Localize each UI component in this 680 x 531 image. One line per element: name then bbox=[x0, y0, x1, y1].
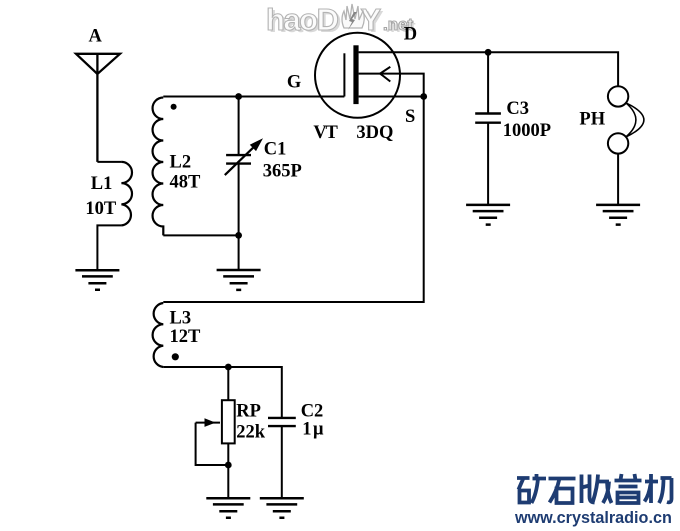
logo char kuang bbox=[517, 474, 546, 503]
svg-text:365P: 365P bbox=[263, 161, 302, 181]
svg-text:PH: PH bbox=[579, 110, 605, 130]
svg-text:48T: 48T bbox=[170, 173, 202, 193]
potentiometer RP wiper bbox=[196, 422, 220, 424]
svg-text:10T: 10T bbox=[85, 199, 117, 219]
wire G net: L2 top to gate bbox=[163, 96, 344, 98]
svg-text:www.crystalradio.cn: www.crystalradio.cn bbox=[514, 509, 672, 527]
junction dot wiper bottom bbox=[225, 462, 232, 469]
svg-text:haoD: haoD bbox=[266, 2, 339, 37]
svg-text:1μ: 1μ bbox=[302, 420, 325, 440]
junction dot S node bbox=[420, 93, 427, 100]
svg-text:1000P: 1000P bbox=[503, 121, 551, 141]
svg-text:D: D bbox=[404, 25, 417, 45]
capacitor C1 arrow bbox=[225, 148, 253, 175]
phones PH top earpiece bbox=[608, 86, 628, 106]
capacitor C1 leads bbox=[238, 97, 240, 270]
phones PH band bbox=[626, 103, 644, 137]
capacitor C2 plates bbox=[268, 418, 296, 426]
wire antenna to L1 bbox=[97, 161, 121, 163]
wire C2 bottom to ground bbox=[281, 426, 283, 498]
inductor L2 bbox=[153, 98, 164, 236]
svg-text:G: G bbox=[287, 73, 301, 93]
capacitor C1 arrowhead bbox=[250, 138, 263, 151]
capacitor C3 lead bbox=[487, 52, 489, 204]
wire S lead bbox=[359, 96, 424, 98]
phase dot L2 bbox=[171, 104, 177, 110]
svg-text:VT: VT bbox=[313, 123, 338, 143]
wire D lead to PH bbox=[359, 52, 618, 86]
svg-text:C1: C1 bbox=[264, 140, 287, 160]
wire L2 bottom to C1 bottom junction bbox=[163, 234, 238, 236]
ground under C3 bbox=[466, 205, 510, 225]
svg-text:L3: L3 bbox=[170, 309, 192, 329]
ground under PH bbox=[596, 205, 640, 225]
svg-text:C2: C2 bbox=[301, 401, 324, 421]
svg-text:L2: L2 bbox=[170, 152, 192, 172]
wire S down to L3 top bbox=[163, 97, 423, 303]
wire junction to RP top bbox=[227, 367, 229, 400]
svg-text:S: S bbox=[405, 107, 415, 127]
inductor L1 bbox=[121, 162, 132, 226]
svg-text:12T: 12T bbox=[170, 327, 202, 347]
phones PH bottom earpiece bbox=[608, 133, 628, 153]
inductor L3 bbox=[153, 303, 164, 367]
svg-text:22k: 22k bbox=[236, 422, 265, 442]
junction dot C1 bottom bbox=[235, 232, 242, 239]
svg-text:3DQ: 3DQ bbox=[356, 123, 393, 143]
transistor VT channel bar bbox=[353, 45, 358, 104]
ground under L1 bbox=[75, 270, 119, 289]
ground under RP bbox=[206, 498, 250, 517]
junction dot G/C1 bbox=[235, 93, 242, 100]
junction dot L3/RP bbox=[225, 364, 232, 371]
logo char yin bbox=[615, 474, 642, 503]
capacitor C3 plates bbox=[475, 114, 501, 123]
transistor arrow chevron bbox=[380, 67, 390, 82]
phase dot L3 bbox=[172, 353, 179, 360]
wire wiper to bottom junction bbox=[196, 423, 229, 465]
logo crystalradio characters bbox=[517, 474, 672, 503]
svg-text:RP: RP bbox=[236, 401, 261, 421]
logo char shi bbox=[549, 479, 576, 504]
junction dot D/C3 bbox=[485, 49, 492, 56]
logo char shou bbox=[582, 475, 612, 504]
transistor VT circle bbox=[315, 33, 400, 118]
transistor VT gate line bbox=[343, 53, 345, 96]
antenna A bbox=[76, 54, 120, 162]
wire PH to ground bbox=[617, 154, 619, 205]
transistor middle lead bbox=[359, 74, 424, 97]
ground under C2 bbox=[260, 498, 304, 517]
svg-text:L1: L1 bbox=[91, 174, 113, 194]
potentiometer RP body bbox=[222, 400, 235, 443]
capacitor C1 plates bbox=[226, 155, 251, 164]
ground under C1 bbox=[217, 270, 261, 290]
svg-text:C3: C3 bbox=[506, 99, 529, 119]
wire RP bottom to ground bbox=[227, 443, 229, 498]
svg-text:A: A bbox=[89, 27, 103, 47]
wire L3 bottom to C2 top bbox=[163, 367, 281, 418]
logo char ji bbox=[645, 474, 672, 503]
watermark haoDIY.net bbox=[266, 2, 416, 39]
potentiometer RP wiper arrowhead bbox=[205, 418, 216, 427]
wire L1 bottom to ground bbox=[97, 225, 121, 270]
